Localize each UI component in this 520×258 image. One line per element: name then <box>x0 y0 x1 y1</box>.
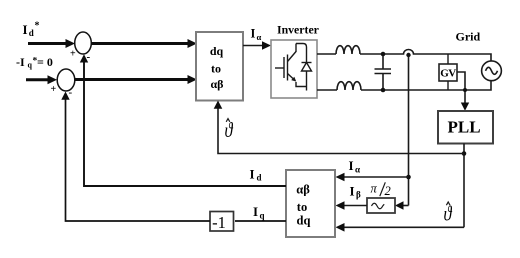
svg-text:I: I <box>350 184 355 199</box>
svg-text:-I: -I <box>16 55 25 69</box>
node junction dot top of C1 <box>381 52 386 57</box>
wire top bus to GV <box>447 54 449 64</box>
wire Iq* input with arrow <box>26 75 57 84</box>
wire dq block to inverter with arrow <box>243 41 271 50</box>
wire theta to alphabeta-dq block with arrow <box>336 223 465 232</box>
svg-text:I: I <box>250 167 255 182</box>
svg-text:*: * <box>35 21 40 32</box>
wire pi/2 output Ibeta into block with arrow <box>336 201 368 210</box>
svg-text:αβ: αβ <box>296 183 310 197</box>
node -Iq*=0 reference label <box>16 55 53 70</box>
wire Ialpha into alphabeta-dq block <box>336 173 409 182</box>
svg-text:α: α <box>257 32 262 42</box>
node Ibeta label <box>350 184 362 200</box>
summing junction S2 <box>51 69 75 99</box>
node junction dot sensing on top bus <box>406 53 410 57</box>
node theta-hat label (left) <box>225 118 234 142</box>
source AC grid <box>482 61 502 81</box>
wire GV to PLL with arrow <box>457 72 469 111</box>
svg-text:PLL: PLL <box>447 118 480 137</box>
svg-text:β: β <box>356 190 361 200</box>
block gain -1 <box>210 212 234 233</box>
svg-text:ϑ: ϑ <box>444 202 453 226</box>
svg-text:αβ: αβ <box>210 77 223 91</box>
svg-text:GV: GV <box>440 68 456 80</box>
node Ialpha label (top) <box>251 27 262 43</box>
summing junction S1 <box>70 32 91 63</box>
node Ialpha label (right) <box>349 158 361 175</box>
svg-text:dq: dq <box>297 214 311 228</box>
svg-text:I: I <box>23 22 28 37</box>
inductor L1 (top) <box>336 46 360 54</box>
transistor emitter arrow <box>291 77 296 82</box>
node junction dot theta branch <box>462 151 467 156</box>
svg-text:to: to <box>211 62 221 76</box>
wire PLL output vertical <box>463 144 465 228</box>
wire S2 output to dq block (thick) <box>75 75 197 84</box>
svg-text:+: + <box>70 49 76 60</box>
node junction dot Ialpha branch <box>406 175 411 180</box>
wire grid sensing vertical <box>408 54 410 206</box>
block GV sensor <box>439 64 457 81</box>
wire sensing into pi/2 block with arrow <box>395 201 409 210</box>
wire bottom bus to grid <box>361 81 491 91</box>
svg-text:= 0: = 0 <box>37 55 53 69</box>
node Id label <box>250 167 262 183</box>
svg-text:dq: dq <box>210 44 224 58</box>
svg-text:2: 2 <box>385 184 391 198</box>
svg-text:Inverter: Inverter <box>277 23 319 37</box>
node pi/2 label <box>371 182 391 199</box>
diode antiparallel inside inverter <box>302 63 312 87</box>
svg-text:I: I <box>251 27 256 41</box>
block alphabeta-to-dq transform <box>286 170 335 237</box>
wire top bus to grid <box>360 50 491 62</box>
block Inverter box <box>271 40 317 98</box>
svg-text:to: to <box>297 200 307 214</box>
wire S1 output to dq block (thick) <box>91 39 197 48</box>
svg-text:d: d <box>29 28 34 38</box>
svg-text:I: I <box>253 204 258 219</box>
capacitor C1 <box>375 54 392 90</box>
wire inverter top output <box>317 53 336 55</box>
transistor IGBT inside inverter <box>275 44 307 91</box>
block PLL <box>438 111 493 144</box>
wire -1 output to S2 <box>61 92 210 222</box>
block pi/2 phase shift <box>367 198 395 213</box>
block dq-to-alphabeta transform <box>196 32 243 101</box>
svg-text:q: q <box>260 211 265 221</box>
svg-text:π: π <box>371 182 378 196</box>
svg-text:+: + <box>51 84 57 95</box>
svg-text:α: α <box>355 165 360 175</box>
node Iq label <box>253 204 265 221</box>
wire Id* input with arrow <box>28 39 75 48</box>
wire Iq from block to -1 <box>235 220 286 222</box>
node junction dot bottom of C1 <box>381 88 386 93</box>
svg-text:-1: -1 <box>212 213 226 232</box>
wire Id feedback <box>80 54 286 186</box>
svg-text:I: I <box>349 158 354 173</box>
svg-text:-: - <box>69 87 73 99</box>
inductor L2 (bottom) <box>337 82 361 90</box>
node junction dot GV line on bottom bus <box>463 88 467 92</box>
node theta-hat label (right) <box>444 202 453 226</box>
svg-text:d: d <box>257 173 262 183</box>
wire theta to dq block <box>214 101 464 154</box>
wire GV to bottom bus <box>447 81 449 90</box>
node Id* reference label <box>23 21 40 39</box>
wire inverter bottom output <box>317 89 337 91</box>
svg-text:Grid: Grid <box>456 30 481 44</box>
